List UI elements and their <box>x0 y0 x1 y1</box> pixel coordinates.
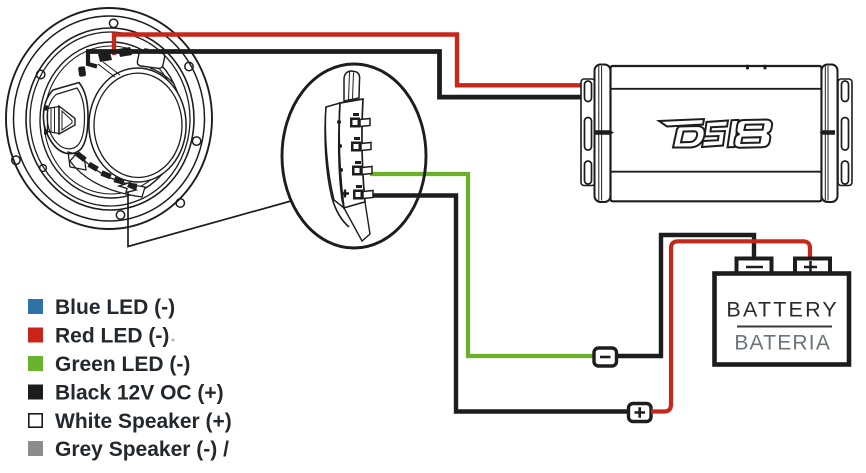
svg-text:Red LED (-): Red LED (-) <box>55 325 169 348</box>
horn mouth wedge <box>59 106 75 134</box>
left horn / shield <box>43 83 88 154</box>
black wire: minus tap to battery negative <box>617 235 755 356</box>
svg-text:Green LED (-): Green LED (-) <box>55 353 190 376</box>
svg-text:Blue LED (-): Blue LED (-) <box>55 296 175 319</box>
legend <box>28 296 232 461</box>
top notch marks <box>746 65 749 70</box>
black 12V swatch <box>28 385 43 400</box>
cap tick marks <box>595 130 614 135</box>
magnifier ellipse callout <box>282 64 426 248</box>
right slot plate <box>838 79 852 186</box>
grey speaker swatch <box>28 441 43 456</box>
plus label <box>341 190 349 198</box>
left end cap <box>595 65 611 203</box>
black wire: connector to plus tap <box>372 196 628 412</box>
green LED swatch <box>28 356 43 371</box>
speaker terminal block (top) <box>88 47 132 77</box>
connector bar inside callout <box>325 71 370 241</box>
blue LED swatch <box>28 299 43 314</box>
red wire: plus tap to battery positive <box>651 241 810 411</box>
callout pointer line <box>128 190 291 247</box>
connector box at strip left <box>68 152 86 170</box>
svg-text:BATERIA: BATERIA <box>734 332 831 355</box>
top terminal housing <box>137 51 164 68</box>
battery plus tap connector <box>629 404 652 422</box>
speaker frame bolt <box>78 66 86 77</box>
main body <box>611 66 822 201</box>
red wire: speaker to amplifier <box>114 35 585 86</box>
svg-text:BATTERY: BATTERY <box>726 298 839 322</box>
green wire: connector to battery minus tap <box>370 174 594 356</box>
svg-text:White Speaker (+): White Speaker (+) <box>55 410 232 433</box>
amplifier U1 <box>581 65 852 203</box>
left slot plate <box>581 79 595 186</box>
battery B1 <box>715 259 850 365</box>
white speaker swatch <box>29 414 42 427</box>
horn striped box <box>48 107 60 134</box>
connector clips <box>337 113 373 200</box>
svg-text:Grey Speaker (-) /: Grey Speaker (-) / <box>55 438 229 461</box>
LED strip <box>74 155 140 190</box>
battery minus tap connector <box>594 348 617 366</box>
pointer arrow <box>119 183 136 193</box>
svg-text:Black 12V OC (+): Black 12V OC (+) <box>55 382 224 405</box>
right end cap <box>822 65 838 203</box>
DS18 logo <box>659 119 772 148</box>
red LED swatch <box>28 328 43 343</box>
speaker SP1 <box>6 8 212 229</box>
black wire: speaker to amplifier <box>86 52 585 98</box>
woofer cone rings <box>89 68 186 182</box>
screw holes <box>109 19 117 27</box>
